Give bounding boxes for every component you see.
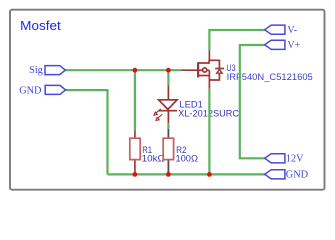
wire Sig branch to LED1 anode — [167, 70, 169, 85]
junction at Sig/LED1 — [166, 68, 171, 73]
wire source to GND rail — [208, 89, 210, 175]
svg-text:Sig: Sig — [29, 65, 43, 76]
svg-text:12V: 12V — [286, 154, 304, 165]
port V- — [265, 25, 297, 36]
wire LED1 cathode to R2 — [167, 123, 169, 129]
wire GND rail — [108, 173, 265, 175]
svg-text:100Ω: 100Ω — [176, 153, 198, 164]
svg-text:Mosfet: Mosfet — [20, 18, 61, 33]
transistor U3 — [181, 50, 224, 88]
junction at Sig/R1 — [133, 68, 138, 73]
port GND (left) — [19, 85, 65, 96]
svg-text:V-: V- — [287, 25, 297, 36]
svg-text:10kΩ: 10kΩ — [142, 153, 165, 164]
svg-text:V+: V+ — [287, 40, 300, 51]
wire GND left to rail — [66, 90, 108, 174]
junction at rail/R1 — [133, 172, 138, 177]
LED LED1 — [154, 86, 177, 124]
port Sig — [29, 65, 65, 76]
port GND (right) — [265, 170, 309, 181]
resistor R2 — [163, 129, 173, 172]
port V+ — [265, 40, 301, 51]
resistor R1 — [130, 131, 140, 175]
wire V+ to 12V — [240, 45, 265, 158]
svg-text:GND: GND — [19, 85, 42, 96]
port 12V — [265, 154, 304, 165]
junction at rail/R2 — [166, 172, 171, 177]
junction at rail/source — [207, 172, 212, 177]
wire Sig branch to R1 — [134, 70, 136, 130]
wire drain to V- — [209, 30, 264, 50]
wire R2 to GND rail — [167, 171, 169, 174]
wire Sig to gate — [65, 69, 181, 71]
svg-text:GND: GND — [286, 170, 309, 181]
